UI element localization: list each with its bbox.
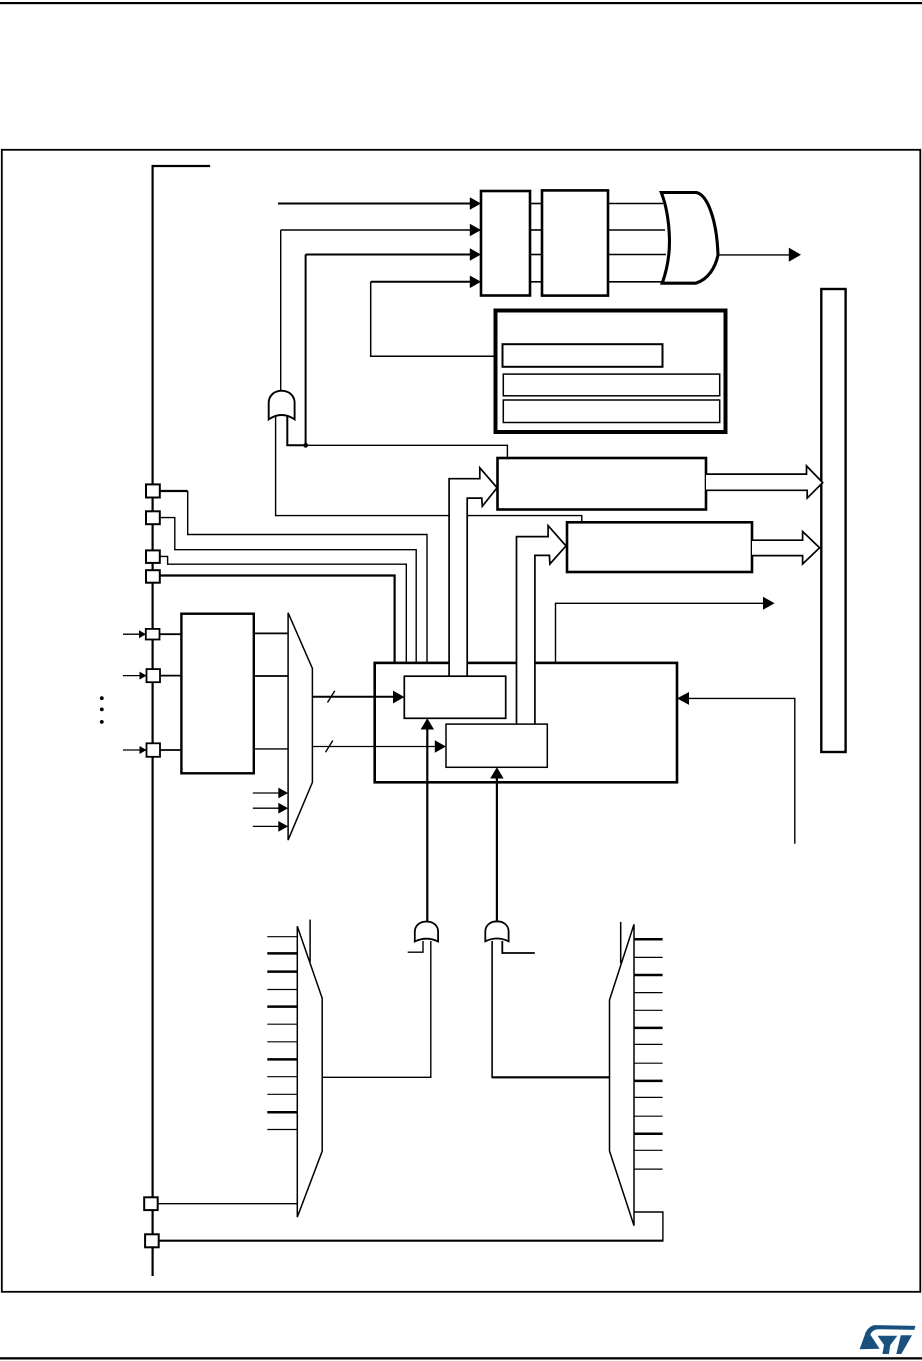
mux M3 input ticks <box>634 938 663 941</box>
mux M1 select arrow a <box>253 792 279 794</box>
arrowhead into box C right <box>677 692 689 705</box>
G0 output arrowhead <box>789 248 801 262</box>
wire pin2 to box C top <box>160 518 416 663</box>
sub-box C1 <box>404 676 505 718</box>
pin square P8 <box>144 1197 158 1210</box>
wire rect1-rect2 level1 <box>530 203 542 205</box>
AND gate g2 <box>485 921 508 941</box>
arrowhead up into C2 bottom <box>490 767 503 778</box>
register row3 <box>503 400 719 423</box>
register rect2 <box>542 190 608 295</box>
pin arrow into P7 <box>123 749 141 751</box>
pin square P3 <box>146 550 160 563</box>
ellipsis dots <box>100 696 104 700</box>
footer rule <box>0 1357 922 1359</box>
box B <box>567 522 752 572</box>
wire g2-mux M3 thick segment <box>492 1076 609 1078</box>
mux M1 select arrow c <box>253 825 279 827</box>
G1 left input wire to box B top <box>276 416 582 523</box>
ST logo <box>860 1325 916 1354</box>
wire pin P9 to mux M3 <box>159 1240 663 1242</box>
gate g2 input from mux M3 <box>492 941 609 1077</box>
box C (big block) <box>375 663 677 782</box>
thick box T <box>496 311 726 433</box>
wire junction to box A top <box>306 445 508 458</box>
bus-width slash a <box>328 691 335 703</box>
gate g1 output wire up to C1 <box>426 728 428 922</box>
left pin bus line <box>153 166 211 1276</box>
wire L4 riser into row1 <box>371 282 503 357</box>
pin square P2 <box>146 511 160 524</box>
wire rect1-rect2 level4 <box>530 281 542 283</box>
wire box D to mux M1 line a <box>254 632 288 634</box>
wire pin P8 to mux M2 <box>158 1203 298 1205</box>
AND gate g1 <box>415 922 438 942</box>
block arrow box B to bus <box>752 532 820 565</box>
elbow block arrow into box B <box>517 526 567 725</box>
pin arrow into P5 <box>123 633 141 635</box>
wire rect1-rect2 level2 <box>530 229 542 231</box>
wire pin1 to box C top <box>160 490 188 492</box>
wire rect2-gate level2 <box>608 229 665 231</box>
wire y603 from box C top <box>556 603 764 663</box>
wire rect1-rect2 level3 <box>530 254 542 256</box>
elbow block arrow into box A <box>449 468 497 676</box>
arrowhead up into C1 bottom <box>421 718 434 729</box>
input wire L1 <box>278 203 471 205</box>
pin square P9 <box>145 1234 159 1247</box>
mux M1 (trapezoid) <box>288 613 312 840</box>
box A <box>498 458 707 510</box>
pin square P6 <box>147 669 161 682</box>
bus-width slash b <box>326 741 333 753</box>
wire pin3 to box C top <box>160 556 406 663</box>
register rect1 <box>481 191 530 296</box>
OR gate G1 (pointing up) <box>269 391 295 420</box>
arrowhead into C2 left <box>435 740 446 753</box>
wire box D to mux M1 line b <box>254 675 288 677</box>
G1 right input wire <box>287 416 305 446</box>
junction dot <box>303 443 308 448</box>
mux M3 (right big trapezoid) <box>610 924 635 1225</box>
input wire L2 <box>281 229 471 231</box>
arrowhead L2 <box>470 224 481 237</box>
wire rect2-gate level3 <box>608 254 666 256</box>
mux M2 input ticks <box>267 936 297 938</box>
wire rect2-gate level4 <box>608 281 663 283</box>
sub-box C2 <box>446 724 547 767</box>
wire P7 to box D <box>160 749 181 751</box>
peripheral bus rectangle <box>821 289 845 752</box>
gate g2 input stub <box>502 941 535 953</box>
input wire L3 <box>306 254 471 256</box>
mux M2 (left big trapezoid) <box>297 926 322 1217</box>
wire mux M1 to C1 <box>312 696 394 698</box>
wire P5 to box D <box>160 633 182 635</box>
register row2 <box>503 374 719 396</box>
G0 output wire <box>718 254 789 256</box>
OR gate G1 output riser <box>280 230 282 391</box>
arrowhead L1 <box>470 197 481 210</box>
arrowhead L3 <box>470 248 481 261</box>
pin square P5 <box>146 629 160 640</box>
gate g2 output wire up to C2 <box>496 777 498 921</box>
wire P6 to box D <box>160 675 181 677</box>
pin square P7 <box>147 743 161 757</box>
arrowhead into C1 left <box>393 691 404 704</box>
block arrow box A to bus <box>706 466 823 498</box>
box D <box>181 614 253 774</box>
wire L3 riser to junction <box>305 255 307 446</box>
input wire L4 <box>371 281 471 283</box>
gate g1 input from mux M2 <box>322 941 431 1077</box>
gate g1 input stub <box>408 941 423 952</box>
wire box D to mux M1 line c <box>254 748 288 750</box>
arrow into box C right edge <box>688 698 795 843</box>
arrowhead y603 <box>763 597 775 610</box>
header rule <box>0 2 922 4</box>
mux M2 top stub <box>309 920 311 962</box>
pin square P1 <box>146 484 160 497</box>
OR gate G0 (4-input, pointing right) <box>661 193 718 284</box>
wire pin4 to box C top <box>160 576 395 664</box>
mux M1 select arrow b <box>253 807 279 809</box>
pin arrow into P6 <box>123 675 141 677</box>
register row1 <box>503 344 663 367</box>
pin square P4 <box>146 570 160 583</box>
wire rect2-gate level1 <box>608 203 663 205</box>
mux M3 top stub <box>620 922 622 964</box>
wire mux M1 to C2 <box>312 746 435 748</box>
arrowhead L4 <box>470 276 481 289</box>
